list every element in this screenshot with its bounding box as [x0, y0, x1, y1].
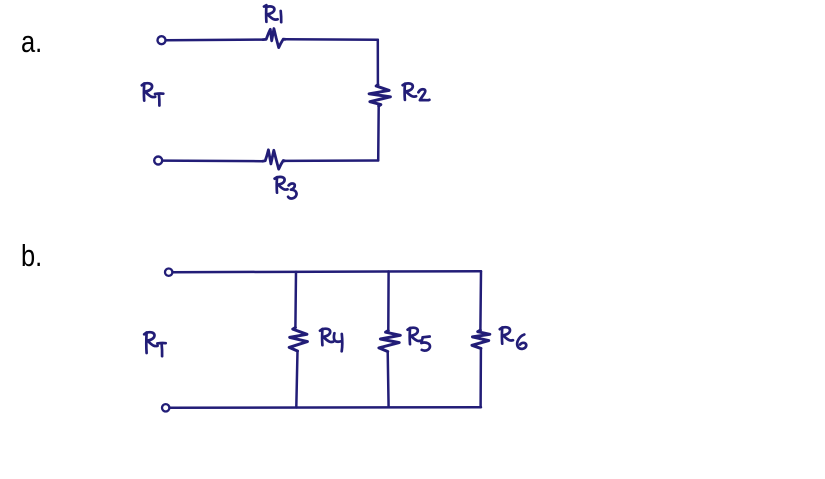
wire (a: right vertical upper): [377, 40, 380, 85]
resistor R4 (vertical zigzag): [289, 328, 307, 352]
label R5: [408, 328, 430, 351]
wire (a: top-left horizontal): [166, 38, 263, 41]
wire (b: branch 3 vertical upper): [479, 271, 482, 330]
resistor R2 (vertical zigzag): [369, 85, 390, 106]
terminal T3 (top-left open circle, circuit b): [165, 269, 172, 276]
wire (b: branch 2 vertical upper): [387, 271, 390, 330]
resistor R1 (horizontal zigzag): [263, 29, 285, 48]
label R1: [264, 5, 281, 22]
list label a.: [21, 26, 42, 57]
wire (a: right vertical lower): [377, 106, 380, 161]
label RT (circuit b): [144, 332, 166, 356]
wire (b: bottom horizontal): [170, 406, 482, 409]
wire (a: bottom-right horizontal): [285, 159, 379, 162]
wire (b: branch 1 vertical upper): [294, 272, 297, 328]
label R4: [320, 329, 342, 352]
terminal T4 (bottom-left open circle, circuit b): [162, 404, 169, 411]
label RT (circuit a): [142, 83, 164, 105]
wire (b: branch 3 vertical lower): [479, 348, 482, 407]
label R6: [500, 327, 526, 349]
wire (a: top-right horizontal): [285, 38, 378, 41]
resistor R5 (vertical zigzag): [379, 331, 400, 352]
resistor R3 (horizontal zigzag): [263, 150, 285, 169]
label R3: [275, 177, 297, 199]
list label b.: [21, 240, 42, 271]
wire (b: branch 1 vertical lower): [296, 351, 297, 408]
terminal T2 (bottom-left open circle, circuit a): [154, 157, 162, 165]
wire (a: bottom-left horizontal): [162, 159, 262, 162]
label R2: [403, 83, 430, 100]
wire (b: branch 2 vertical lower): [386, 352, 389, 408]
terminal T1 (top-left open circle, circuit a): [158, 36, 166, 44]
resistor R6 (vertical zigzag): [472, 330, 490, 348]
wire (b: top horizontal): [173, 271, 482, 272]
